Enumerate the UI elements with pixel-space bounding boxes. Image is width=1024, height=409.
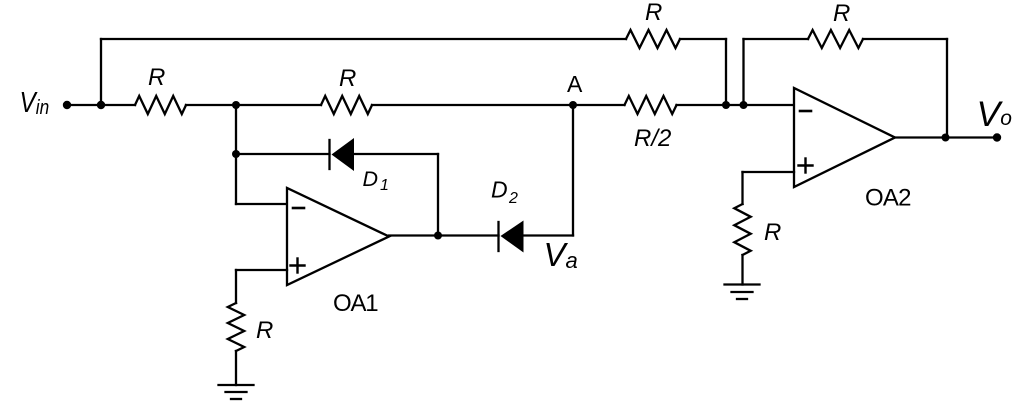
- resistor R (OA2 non-inverting to ground): [734, 204, 750, 255]
- wire between R1 and R2: [186, 104, 321, 106]
- resistor R1 (input R): [135, 96, 186, 114]
- op-amp OA2 minus sign: [800, 110, 811, 113]
- ground (OA1 side): [219, 384, 254, 386]
- op-amp OA1 minus sign: [293, 207, 304, 210]
- node dot top feedback junction: [722, 101, 730, 109]
- resistor R (top feedback): [626, 30, 680, 48]
- node dot Vin terminal: [63, 101, 71, 109]
- svg-text:D: D: [491, 177, 508, 203]
- wire OA1 output to D2: [389, 234, 499, 236]
- node dot OA2 feedback junction: [740, 101, 748, 109]
- svg-text:R: R: [645, 0, 662, 26]
- op-amp OA1 triangle: [287, 188, 389, 285]
- node dot OA1 output tee: [434, 232, 442, 240]
- node dot at OA1 branch: [232, 101, 240, 109]
- wire R/2 to OA2 inverting input: [677, 104, 795, 106]
- wire down to grounding resistor OA2: [741, 172, 743, 204]
- wire D1 anode to corner: [354, 153, 438, 155]
- op-amp OA1 plus sign: [291, 264, 305, 266]
- svg-text:R: R: [148, 64, 165, 91]
- diode D1 arrow: [332, 138, 355, 171]
- svg-text:1: 1: [380, 177, 389, 194]
- wire R2 to R/2 through node A: [372, 104, 625, 106]
- svg-text:A: A: [567, 71, 583, 97]
- node dot input junction: [97, 101, 105, 109]
- wire OA1 non-inverting input: [236, 269, 287, 271]
- wire OA2 non-inverting input: [743, 171, 795, 173]
- diode D2 cathode bar: [497, 222, 499, 251]
- resistor R (OA1 non-inverting to ground): [228, 303, 244, 351]
- wire D1 branch left segment: [236, 153, 330, 155]
- wire vertical from main wire to OA1 branch: [235, 105, 237, 204]
- svg-text:R: R: [833, 0, 850, 27]
- wire vertical riser at input node: [100, 39, 102, 105]
- wire D2 anode to corner: [523, 234, 573, 236]
- resistor R2 (second series R): [321, 96, 372, 114]
- node dot D1 branch tee: [232, 150, 240, 158]
- wire OA2 output to Vo terminal: [895, 136, 997, 138]
- wire top feedback right segment: [680, 38, 726, 40]
- wire resistor to ground OA2: [741, 255, 743, 285]
- node dot Vo terminal: [993, 133, 1001, 141]
- wire down to grounding resistor OA1: [235, 270, 237, 303]
- wire top feedback left segment: [101, 38, 626, 40]
- resistor R/2: [625, 96, 677, 114]
- svg-text:R: R: [339, 65, 356, 92]
- node A dot: [569, 101, 577, 109]
- wire OA2 feedback top right segment: [863, 38, 947, 40]
- diode D2 arrow: [501, 221, 524, 253]
- resistor R (OA2 feedback): [808, 30, 863, 48]
- wire D2 corner up to node A: [572, 105, 574, 236]
- svg-text:2: 2: [508, 190, 518, 207]
- wire OA2 feedback top left segment: [744, 38, 809, 40]
- wire main horizontal segment Vin to R: [67, 104, 135, 106]
- wire resistor to ground OA1: [235, 351, 237, 385]
- svg-text:R/2: R/2: [634, 125, 671, 152]
- node dot OA2 output junction: [942, 134, 950, 142]
- svg-text:OA1: OA1: [333, 290, 378, 317]
- svg-text:R: R: [256, 317, 273, 344]
- op-amp OA2 plus sign: [799, 164, 813, 166]
- wire OA2 feedback riser: [742, 39, 744, 105]
- svg-text:D: D: [363, 167, 379, 191]
- wire D1 corner down to OA1 output: [437, 154, 439, 235]
- diode D1 cathode bar: [328, 140, 330, 169]
- ground (OA2 side): [725, 283, 760, 285]
- svg-text:OA2: OA2: [865, 185, 911, 212]
- svg-text:R: R: [764, 219, 781, 246]
- wire top feedback drop to main wire: [725, 39, 727, 105]
- op-amp OA2 triangle: [794, 88, 895, 187]
- wire OA2 feedback drop to output: [946, 39, 948, 138]
- wire into OA1 inverting input: [236, 203, 287, 205]
